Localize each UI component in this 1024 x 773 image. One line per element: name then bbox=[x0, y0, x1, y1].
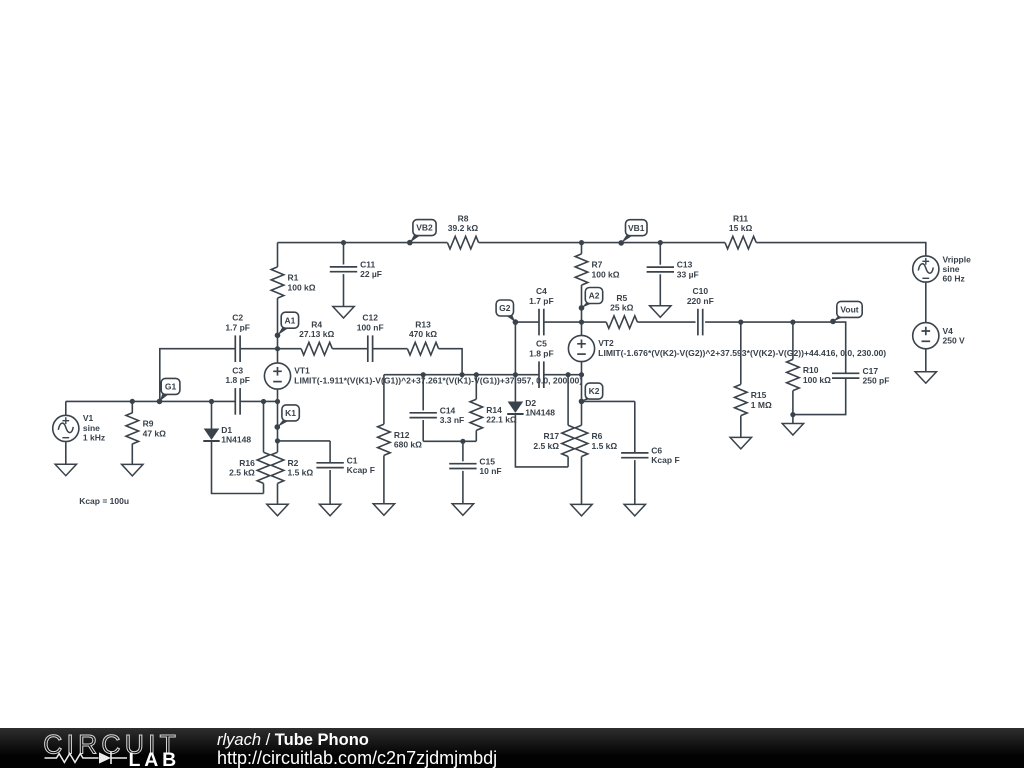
node VB1 bbox=[621, 234, 634, 243]
svg-text:G1: G1 bbox=[165, 382, 177, 392]
svg-text:C3: C3 bbox=[232, 365, 243, 375]
capacitor C15 bbox=[462, 441, 464, 461]
capacitor C12 bbox=[367, 335, 369, 362]
wire G1 row bbox=[66, 400, 236, 402]
svg-text:1 MΩ: 1 MΩ bbox=[751, 400, 772, 410]
node VB2 bbox=[410, 234, 422, 243]
svg-text:Vout: Vout bbox=[840, 305, 858, 315]
resistor R1 bbox=[271, 267, 284, 298]
svg-text:15 kΩ: 15 kΩ bbox=[729, 223, 753, 233]
svg-text:1N4148: 1N4148 bbox=[221, 435, 251, 445]
svg-text:VB1: VB1 bbox=[628, 223, 645, 233]
svg-text:R4: R4 bbox=[311, 320, 322, 330]
wire G2 branch bbox=[514, 322, 516, 375]
svg-text:VT2: VT2 bbox=[598, 338, 614, 348]
wire feedback row bbox=[384, 374, 539, 376]
resistor R5 bbox=[606, 316, 637, 329]
svg-text:C10: C10 bbox=[693, 286, 709, 296]
diode D1 bbox=[211, 402, 213, 429]
wire top supply rail bbox=[278, 242, 448, 244]
svg-text:D2: D2 bbox=[525, 398, 536, 408]
svg-text:C15: C15 bbox=[479, 456, 495, 466]
svg-text:C12: C12 bbox=[362, 313, 378, 323]
wire A2 row bbox=[515, 321, 539, 323]
svg-text:R15: R15 bbox=[751, 390, 767, 400]
voltage source V1 bbox=[65, 401, 67, 415]
svg-text:1 kHz: 1 kHz bbox=[83, 433, 105, 443]
svg-text:22.1 kΩ: 22.1 kΩ bbox=[486, 415, 517, 425]
svg-text:1.5 kΩ: 1.5 kΩ bbox=[288, 468, 314, 478]
svg-text:R17: R17 bbox=[544, 431, 560, 441]
capacitor C14 bbox=[422, 375, 424, 411]
voltage source VT1 behavioral bbox=[277, 349, 279, 363]
node A2 junction bbox=[579, 320, 584, 325]
resistor R15 bbox=[740, 322, 742, 384]
capacitor C6 bbox=[634, 401, 636, 453]
node A1 bbox=[278, 327, 290, 336]
svg-text:R10: R10 bbox=[803, 365, 819, 375]
svg-text:C13: C13 bbox=[677, 260, 693, 270]
svg-text:VB2: VB2 bbox=[416, 223, 433, 233]
resistor R7 bbox=[575, 254, 588, 285]
svg-text:Kcap F: Kcap F bbox=[347, 465, 375, 475]
resistor R9 bbox=[131, 401, 133, 413]
node A1 junction bbox=[275, 346, 280, 351]
svg-text:A2: A2 bbox=[589, 291, 600, 301]
node R13 junction bbox=[460, 372, 465, 377]
voltage source V4 bbox=[913, 323, 939, 349]
node VB1 junction bbox=[579, 240, 584, 245]
voltage source Vripple bbox=[913, 256, 939, 282]
node K1 bbox=[277, 419, 290, 427]
wire R10 ground stub bbox=[792, 415, 794, 424]
resistor R10 bbox=[792, 322, 794, 359]
resistor R17 bbox=[567, 375, 569, 426]
svg-text:1.8 pF: 1.8 pF bbox=[529, 348, 554, 358]
node G1 bbox=[160, 393, 170, 402]
svg-text:R7: R7 bbox=[592, 260, 603, 270]
capacitor C17 bbox=[845, 371, 847, 373]
capacitor C13 bbox=[659, 243, 661, 265]
resistor R4 bbox=[301, 342, 332, 355]
svg-text:47 kΩ: 47 kΩ bbox=[143, 428, 167, 438]
svg-text:D1: D1 bbox=[221, 425, 232, 435]
svg-text:10 nF: 10 nF bbox=[479, 466, 501, 476]
svg-text:K1: K1 bbox=[285, 408, 296, 418]
svg-text:V4: V4 bbox=[943, 326, 954, 336]
ground R10 bbox=[782, 424, 803, 436]
ground R15 bbox=[730, 437, 751, 449]
capacitor C2 bbox=[234, 335, 236, 362]
footer bar bbox=[0, 728, 1024, 768]
capacitor C10 bbox=[697, 309, 699, 336]
svg-text:R5: R5 bbox=[616, 293, 627, 303]
svg-text:C1: C1 bbox=[347, 455, 358, 465]
svg-text:3.3 nF: 3.3 nF bbox=[440, 415, 465, 425]
svg-text:250 pF: 250 pF bbox=[863, 376, 890, 386]
node G2 bbox=[505, 315, 515, 323]
resistor R6 bbox=[581, 375, 583, 426]
svg-text:100 kΩ: 100 kΩ bbox=[288, 282, 316, 292]
svg-text:LIMIT(-1.676*(V(K2)-V(G2))^2+3: LIMIT(-1.676*(V(K2)-V(G2))^2+37.593*(V(K… bbox=[598, 348, 886, 358]
resistor R13 bbox=[407, 342, 438, 355]
svg-text:sine: sine bbox=[83, 423, 100, 433]
CircuitLab logo bbox=[0, 728, 210, 768]
svg-text:2.5 kΩ: 2.5 kΩ bbox=[229, 468, 255, 478]
svg-text:250 V: 250 V bbox=[943, 336, 966, 346]
node VT2 bottom bbox=[579, 372, 584, 377]
svg-text:25 kΩ: 25 kΩ bbox=[610, 303, 634, 313]
ground C6 bbox=[624, 504, 645, 516]
svg-text:Vripple: Vripple bbox=[943, 254, 972, 264]
svg-text:22 µF: 22 µF bbox=[360, 269, 382, 279]
svg-text:C5: C5 bbox=[536, 339, 547, 349]
ground R6 bbox=[571, 504, 592, 516]
svg-text:R12: R12 bbox=[394, 430, 410, 440]
ground V1 bbox=[55, 464, 76, 476]
svg-text:1.8 pF: 1.8 pF bbox=[225, 375, 250, 385]
wire Vripple to V4 bbox=[925, 282, 927, 322]
svg-text:R13: R13 bbox=[415, 320, 431, 330]
wire C14-R14 bottom bbox=[423, 440, 476, 442]
svg-text:1.7 pF: 1.7 pF bbox=[225, 322, 250, 332]
wire V4 to ground bbox=[925, 349, 927, 372]
ground V4 bbox=[915, 372, 936, 384]
svg-text:R2: R2 bbox=[288, 458, 299, 468]
resistor R12 bbox=[383, 375, 385, 425]
svg-text:39.2 kΩ: 39.2 kΩ bbox=[448, 223, 479, 233]
svg-text:G2: G2 bbox=[499, 303, 511, 313]
svg-text:220 nF: 220 nF bbox=[687, 296, 714, 306]
svg-text:33 µF: 33 µF bbox=[677, 269, 699, 279]
svg-text:R8: R8 bbox=[458, 213, 469, 223]
svg-text:VT1: VT1 bbox=[294, 366, 310, 376]
capacitor C1 bbox=[329, 441, 331, 463]
svg-text:470 kΩ: 470 kΩ bbox=[409, 329, 437, 339]
ground C13 bbox=[650, 306, 671, 318]
ground R12 bbox=[373, 504, 394, 516]
svg-text:R16: R16 bbox=[239, 458, 255, 468]
capacitor C4 bbox=[538, 309, 540, 336]
svg-text:R11: R11 bbox=[733, 213, 748, 223]
ground C15 bbox=[452, 504, 473, 516]
svg-text:A1: A1 bbox=[284, 315, 295, 325]
svg-text:100 kΩ: 100 kΩ bbox=[592, 269, 620, 279]
svg-text:C14: C14 bbox=[440, 405, 456, 415]
voltage source VT2 behavioral bbox=[581, 322, 583, 335]
svg-text:100 kΩ: 100 kΩ bbox=[803, 375, 831, 385]
ground R9 bbox=[122, 464, 143, 476]
node A2 bbox=[582, 302, 594, 308]
svg-text:Kcap F: Kcap F bbox=[651, 455, 679, 465]
resistor R14 bbox=[475, 375, 477, 400]
wire R7 branch bbox=[581, 243, 583, 254]
ground R2 bbox=[267, 504, 288, 516]
svg-text:C11: C11 bbox=[360, 259, 375, 269]
svg-text:680 kΩ: 680 kΩ bbox=[394, 440, 422, 450]
svg-text:LAB: LAB bbox=[129, 749, 180, 768]
wire A1 row bbox=[160, 349, 236, 402]
svg-text:Kcap = 100u: Kcap = 100u bbox=[79, 496, 129, 506]
svg-text:1N4148: 1N4148 bbox=[525, 408, 555, 418]
svg-text:60 Hz: 60 Hz bbox=[943, 274, 965, 284]
svg-text:sine: sine bbox=[943, 264, 960, 274]
svg-text:K2: K2 bbox=[589, 386, 600, 396]
wire K1 to C1 bbox=[278, 440, 331, 442]
svg-text:C4: C4 bbox=[536, 286, 547, 296]
wire K2 to C6 bbox=[582, 400, 635, 402]
svg-text:1.5 kΩ: 1.5 kΩ bbox=[592, 441, 618, 451]
svg-text:C17: C17 bbox=[863, 366, 879, 376]
svg-text:R9: R9 bbox=[143, 419, 154, 429]
svg-text:1.7 pF: 1.7 pF bbox=[529, 296, 554, 306]
svg-text:100 nF: 100 nF bbox=[357, 322, 384, 332]
ground C1 bbox=[319, 504, 340, 516]
svg-text:R1: R1 bbox=[288, 273, 299, 283]
node Vout bbox=[833, 316, 845, 322]
node at C11 top bbox=[341, 240, 346, 245]
svg-text:27.13 kΩ: 27.13 kΩ bbox=[299, 329, 334, 339]
capacitor C3 bbox=[234, 388, 236, 415]
capacitor C11 bbox=[343, 243, 345, 265]
svg-text:C2: C2 bbox=[232, 313, 243, 323]
resistor R8 bbox=[447, 236, 478, 249]
node at C13 top bbox=[658, 240, 663, 245]
capacitor C5 bbox=[538, 361, 540, 388]
svg-text:R6: R6 bbox=[592, 431, 603, 441]
resistor R16 bbox=[263, 402, 265, 453]
node K2 bbox=[582, 398, 594, 402]
svg-text:V1: V1 bbox=[83, 413, 94, 423]
svg-text:2.5 kΩ: 2.5 kΩ bbox=[533, 441, 559, 451]
svg-text:C6: C6 bbox=[651, 445, 662, 455]
ground C11 bbox=[333, 307, 354, 319]
svg-text:R14: R14 bbox=[486, 405, 502, 415]
diode D2 bbox=[514, 375, 516, 402]
wire R1 branch bbox=[277, 243, 279, 267]
resistor R11 bbox=[725, 236, 756, 249]
resistor R2 bbox=[277, 402, 279, 453]
